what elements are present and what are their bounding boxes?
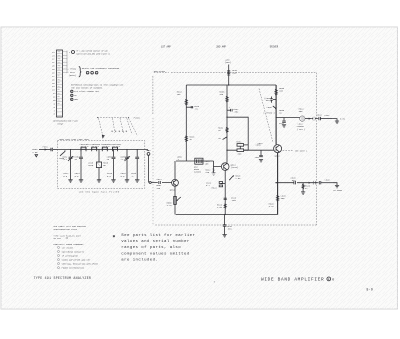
emitter resistor R606 [167, 186, 181, 214]
Q644 note pointer [283, 150, 308, 153]
emitter RC pair R624 C624 [206, 181, 225, 189]
bottom rail corner to Q604 [175, 213, 177, 215]
svg-text:(NOTE): (NOTE) [69, 74, 76, 77]
emitter chain of Q614 [225, 170, 241, 214]
driver base line [227, 149, 274, 151]
svg-text:SEE NOTE 1: SEE NOTE 1 [295, 150, 308, 153]
C636 bypass to ground [254, 144, 263, 162]
svg-text:C637: C637 [258, 142, 264, 145]
svg-text:4.7K: 4.7K [167, 204, 173, 207]
svg-text:(DEC): (DEC) [225, 61, 231, 64]
svg-text:( TP608 ): ( TP608 ) [263, 111, 274, 114]
junction driver emitter [275, 182, 276, 183]
input trimmer C600 [59, 150, 65, 160]
ground [97, 180, 101, 182]
svg-text:.001: .001 [233, 110, 239, 113]
transistor Q644 driver [274, 145, 282, 158]
svg-text:→ TP604: → TP604 [67, 67, 76, 70]
R646 shunt [301, 183, 311, 195]
svg-text:L648: L648 [325, 178, 331, 181]
svg-text:VIDEO AMPLIFIER AND CRT: VIDEO AMPLIFIER AND CRT [62, 259, 91, 262]
peaking coil L642 [297, 107, 312, 130]
svg-text:100 MHz BAND PASS FILTER: 100 MHz BAND PASS FILTER [79, 191, 120, 194]
ground [111, 180, 115, 182]
svg-text:L638: L638 [267, 106, 273, 109]
R618 on left branch [177, 85, 188, 161]
input wire [39, 146, 50, 151]
feedback resistors R634 [236, 141, 248, 156]
series resonator L605 C605 [101, 143, 112, 151]
C637 label [258, 142, 264, 145]
svg-text:TO V995: TO V995 [333, 189, 342, 192]
bottom note list [58, 246, 99, 269]
lower output ground [333, 183, 343, 193]
star note [113, 233, 196, 262]
svg-text:SN 101: SN 101 [53, 237, 61, 240]
svg-text:.001: .001 [227, 228, 233, 231]
bottom note: parts list [53, 225, 86, 231]
arrow on lower output [309, 182, 311, 184]
svg-text:THE 600 SERIES OF NUMBERS.: THE 600 SERIES OF NUMBERS. [71, 86, 103, 89]
connector J601 [51, 148, 58, 151]
svg-text:TYPE 491 SPECTRUM ANALYZER: TYPE 491 SPECTRUM ANALYZER [34, 276, 92, 280]
band pass filter enclosure FL601 [57, 138, 144, 189]
note 1 row [69, 50, 110, 56]
svg-text:.001: .001 [254, 156, 260, 159]
ground [135, 180, 139, 182]
switch SW601 wafer (dashed) [97, 117, 141, 138]
bottom note: type plug-in [53, 234, 81, 240]
svg-text:VERTICAL RESOLUTION AMPLIFIER: VERTICAL RESOLUTION AMPLIFIER [62, 263, 99, 266]
svg-text:.3-7: .3-7 [62, 158, 68, 161]
upper output line [276, 117, 300, 119]
amplitude linkage diagonal [259, 89, 273, 143]
base jog to Q2 [214, 161, 222, 167]
series resonator L603 C603 [90, 143, 101, 151]
input coupling C611 [149, 178, 171, 190]
test point TP608 [263, 106, 285, 115]
shunt trimmer C608 [120, 149, 130, 179]
junction dots [225, 117, 277, 216]
svg-text:8-9: 8-9 [366, 287, 373, 291]
C644 output coupling [317, 113, 333, 120]
svg-text:1ST MIXER: 1ST MIXER [62, 246, 74, 249]
svg-text:are included.: are included. [121, 257, 158, 262]
note list [71, 90, 100, 101]
end shunt L608 [131, 149, 139, 179]
interstage network A62 R608 [176, 158, 214, 173]
output ground term [333, 118, 346, 124]
ground [79, 180, 83, 182]
svg-text:SEMICONDUCTOR TYPES: SEMICONDUCTOR TYPES [53, 228, 77, 231]
svg-text:C644: C644 [317, 113, 323, 116]
filter top rail [57, 148, 144, 150]
shunt trimmer C602 [62, 149, 73, 179]
wire bus right of strip [63, 51, 68, 74]
svg-text:.3-7: .3-7 [120, 158, 126, 161]
transistor Q614 [221, 163, 238, 171]
svg-text:ADJUST PER ALIGNMENT PROCEDURE: ADJUST PER ALIGNMENT PROCEDURE [82, 67, 120, 70]
reference note paragraph [71, 84, 124, 90]
Q604 collector lead [174, 161, 176, 179]
svg-text:R624: R624 [212, 187, 218, 190]
C642 shunt [279, 118, 286, 128]
electrolytic C632 [227, 106, 239, 113]
R628 emitter res [217, 203, 226, 209]
crystal branch Y601 [88, 149, 109, 179]
R612 base bias [205, 167, 214, 175]
svg-text:.001): .001) [265, 99, 271, 102]
AMPLITUDE control linkage [153, 70, 166, 115]
R616 [185, 136, 195, 142]
svg-text:.001: .001 [291, 179, 297, 182]
connector pair at shield lower [313, 181, 319, 185]
lower output line [276, 182, 316, 184]
alignment brace group [67, 66, 120, 77]
driver collector branch [275, 85, 285, 145]
transistor Q604 [170, 179, 179, 191]
Q2 collector branch from rail [219, 85, 228, 163]
svg-text:component values omitted: component values omitted [121, 251, 190, 256]
svg-text:4.7K: 4.7K [269, 205, 275, 208]
amplifier shield enclosure (dashed) [153, 73, 317, 225]
L612 base label [205, 160, 211, 166]
svg-text:1ST AMP: 1ST AMP [161, 45, 171, 48]
title [261, 277, 335, 282]
svg-text:0.5 V/DIV SIGNAL OUT: 0.5 V/DIV SIGNAL OUT [74, 90, 100, 93]
svg-text:SWITCHING CIRCUITS: SWITCHING CIRCUITS [62, 250, 85, 253]
connector pair at shield [311, 117, 318, 121]
ground [125, 180, 129, 182]
svg-text:.001: .001 [231, 199, 237, 202]
R632 gain pot [218, 127, 228, 140]
shunt cap C604 [74, 149, 83, 179]
svg-text:P601: P601 [43, 146, 49, 149]
svg-text:( OUT ): ( OUT ) [297, 128, 306, 131]
svg-text:TP 1 AND WIPING CONTACT OF CAM: TP 1 AND WIPING CONTACT OF CAM [76, 50, 108, 53]
+20V supply entry [225, 59, 238, 86]
svg-text:See parts list for earlier: See parts list for earlier [121, 233, 195, 238]
svg-text:(L608): (L608) [194, 171, 201, 174]
svg-text:C610: C610 [88, 164, 94, 167]
svg-text:values and serial number: values and serial number [121, 239, 190, 244]
svg-text:2ND AMP: 2ND AMP [216, 45, 226, 48]
L609 label [177, 155, 183, 161]
terminal strip J600 [57, 50, 63, 117]
svg-text:POWER DISTRIBUTION: POWER DISTRIBUTION [62, 267, 85, 270]
driver emitter chain [269, 153, 287, 215]
C646 coupling [291, 176, 297, 184]
svg-text:2.5K: 2.5K [235, 177, 241, 180]
svg-text:1.8K: 1.8K [217, 206, 223, 209]
series resonator L607 C607 [111, 143, 122, 151]
svg-text:(L626): (L626) [231, 166, 238, 169]
C648 coupling [319, 178, 333, 184]
svg-text:DRIVER: DRIVER [270, 45, 279, 48]
svg-text:12μH: 12μH [232, 71, 238, 74]
svg-text:0.5V: 0.5V [340, 118, 346, 121]
shunt cap C606 [107, 149, 116, 179]
C628 emitter cap [224, 196, 237, 202]
svg-text:L644: L644 [324, 114, 330, 117]
svg-text:FL601: FL601 [134, 117, 141, 120]
output connector J602 [145, 149, 152, 183]
svg-text:IF ATTENUATOR: IF ATTENUATOR [62, 254, 79, 257]
svg-text:✱: ✱ [113, 234, 116, 239]
terminal strip cell marks [58, 52, 61, 104]
feedback loop wire [227, 117, 248, 150]
svg-text:V 9A: V 9A [32, 151, 38, 154]
svg-text:ranges of parts, also: ranges of parts, also [121, 245, 181, 250]
svg-text:STRAP: STRAP [57, 122, 64, 125]
bottom common rail [176, 213, 278, 215]
series resonator L601 C601 [80, 143, 91, 151]
svg-text:C611: C611 [157, 178, 163, 181]
ground [212, 173, 216, 175]
terminal strip pin labels [52, 51, 56, 116]
ground [68, 180, 72, 182]
svg-text:L600 L602 L604 L606 L608: L600 L602 L604 L606 L608 [59, 138, 90, 141]
input label from V9A [32, 148, 38, 157]
svg-text:SWITCH WHT-BRN-RED WIRE (NOTE: SWITCH WHT-BRN-RED WIRE (NOTE 2) [76, 53, 110, 55]
C618 bypass [186, 105, 200, 111]
svg-text:WIDE BAND AMPLIFIER: WIDE BAND AMPLIFIER [261, 277, 324, 282]
chassis ground stub [222, 214, 232, 237]
svg-text:C642: C642 [279, 122, 285, 125]
svg-text:R634: R634 [236, 141, 242, 144]
C630 bypass [264, 97, 276, 103]
+20V rail [186, 84, 276, 86]
